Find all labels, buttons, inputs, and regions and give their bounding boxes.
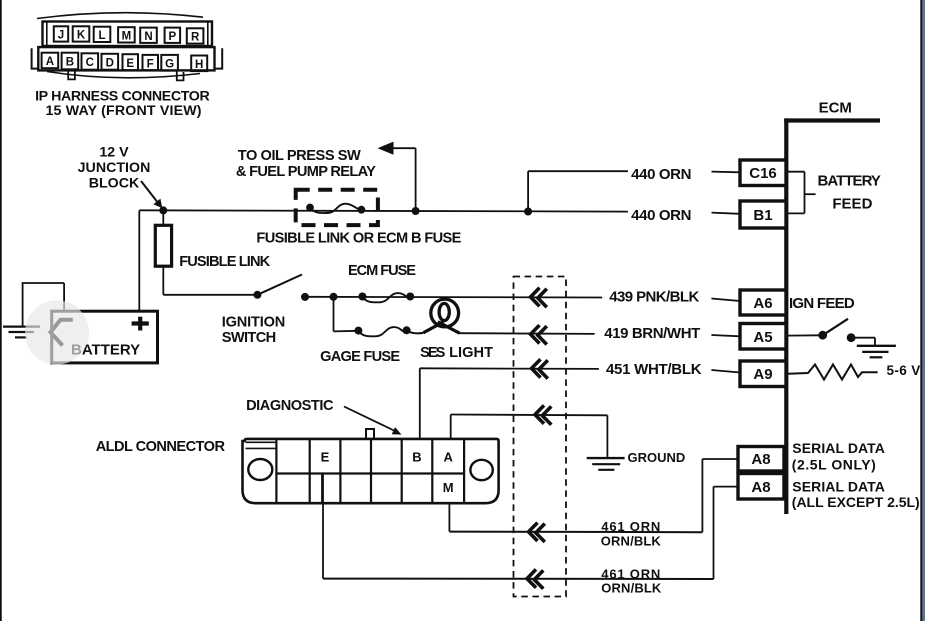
svg-text:H: H xyxy=(195,59,203,71)
svg-text:A9: A9 xyxy=(753,366,772,383)
svg-text:A6: A6 xyxy=(753,295,772,312)
svg-text:A5: A5 xyxy=(753,329,772,346)
svg-text:BATTERY: BATTERY xyxy=(818,172,881,189)
svg-text:B: B xyxy=(412,450,421,465)
svg-text:A: A xyxy=(46,56,54,68)
svg-text:P: P xyxy=(168,31,176,43)
svg-text:ORN/BLK: ORN/BLK xyxy=(601,580,662,595)
svg-text:12 V: 12 V xyxy=(99,145,129,161)
svg-text:BLOCK: BLOCK xyxy=(89,176,140,192)
svg-text:DIAGNOSTIC: DIAGNOSTIC xyxy=(246,398,334,414)
svg-text:461 ORN: 461 ORN xyxy=(601,566,660,581)
svg-text:B: B xyxy=(66,57,74,69)
svg-text:ORN/BLK: ORN/BLK xyxy=(601,533,662,548)
svg-text:C: C xyxy=(86,57,94,69)
svg-text:L: L xyxy=(98,30,105,42)
svg-text:C16: C16 xyxy=(749,165,777,182)
svg-text:M: M xyxy=(443,480,454,495)
svg-text:419 BRN/WHT: 419 BRN/WHT xyxy=(604,325,700,342)
svg-text:GROUND: GROUND xyxy=(628,450,686,465)
svg-text:E: E xyxy=(126,58,134,70)
svg-text:D: D xyxy=(106,58,114,70)
svg-text:SWITCH: SWITCH xyxy=(222,330,277,346)
svg-text:& FUEL PUMP RELAY: & FUEL PUMP RELAY xyxy=(236,164,376,180)
svg-text:ECM: ECM xyxy=(819,100,852,117)
svg-text:J: J xyxy=(58,30,64,42)
svg-text:N: N xyxy=(144,31,152,43)
svg-text:R: R xyxy=(191,32,200,44)
svg-text:5-6 V: 5-6 V xyxy=(887,363,921,378)
svg-text:440 ORN: 440 ORN xyxy=(631,207,691,224)
svg-text:ECM FUSE: ECM FUSE xyxy=(348,263,416,279)
svg-text:B1: B1 xyxy=(753,207,772,224)
svg-text:TO OIL PRESS SW: TO OIL PRESS SW xyxy=(238,148,361,164)
svg-text:IGNITION: IGNITION xyxy=(222,314,286,330)
svg-text:FEED: FEED xyxy=(832,195,872,212)
svg-text:SERIAL DATA: SERIAL DATA xyxy=(792,440,885,456)
svg-text:F: F xyxy=(147,59,154,71)
svg-text:LIGHT: LIGHT xyxy=(449,345,493,361)
svg-text:GAGE FUSE: GAGE FUSE xyxy=(320,349,400,365)
svg-text:SERIAL DATA: SERIAL DATA xyxy=(792,479,885,495)
svg-text:IGN FEED: IGN FEED xyxy=(789,295,855,312)
svg-text:JUNCTION: JUNCTION xyxy=(78,160,151,176)
svg-text:(2.5L ONLY): (2.5L ONLY) xyxy=(792,457,876,473)
svg-text:(ALL EXCEPT 2.5L): (ALL EXCEPT 2.5L) xyxy=(792,494,920,510)
svg-text:A8: A8 xyxy=(751,451,770,468)
svg-text:451 WHT/BLK: 451 WHT/BLK xyxy=(606,361,702,378)
svg-text:SES: SES xyxy=(420,345,445,361)
svg-text:15 WAY (FRONT VIEW): 15 WAY (FRONT VIEW) xyxy=(46,103,202,119)
svg-text:FUSIBLE LINK: FUSIBLE LINK xyxy=(179,254,270,270)
svg-text:A8: A8 xyxy=(751,479,770,496)
svg-text:FUSIBLE LINK OR ECM B FUSE: FUSIBLE LINK OR ECM B FUSE xyxy=(256,230,461,246)
svg-text:440 ORN: 440 ORN xyxy=(631,166,691,183)
svg-text:461 ORN: 461 ORN xyxy=(601,519,660,534)
svg-text:E: E xyxy=(321,450,330,465)
svg-text:M: M xyxy=(122,31,132,43)
svg-text:ALDL CONNECTOR: ALDL CONNECTOR xyxy=(96,439,226,455)
svg-text:K: K xyxy=(77,30,86,42)
svg-text:A: A xyxy=(444,450,454,465)
svg-text:G: G xyxy=(165,59,174,71)
svg-text:439 PNK/BLK: 439 PNK/BLK xyxy=(609,288,699,305)
